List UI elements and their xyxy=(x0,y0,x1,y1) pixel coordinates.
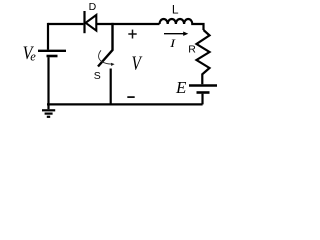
svg-text:L: L xyxy=(172,3,179,17)
svg-text:E: E xyxy=(175,78,187,97)
svg-text:e: e xyxy=(30,49,36,63)
svg-text:R: R xyxy=(188,44,196,56)
svg-text:V: V xyxy=(132,53,144,75)
svg-text:I: I xyxy=(169,37,177,50)
svg-text:S: S xyxy=(94,70,101,82)
svg-text:D: D xyxy=(89,1,97,13)
